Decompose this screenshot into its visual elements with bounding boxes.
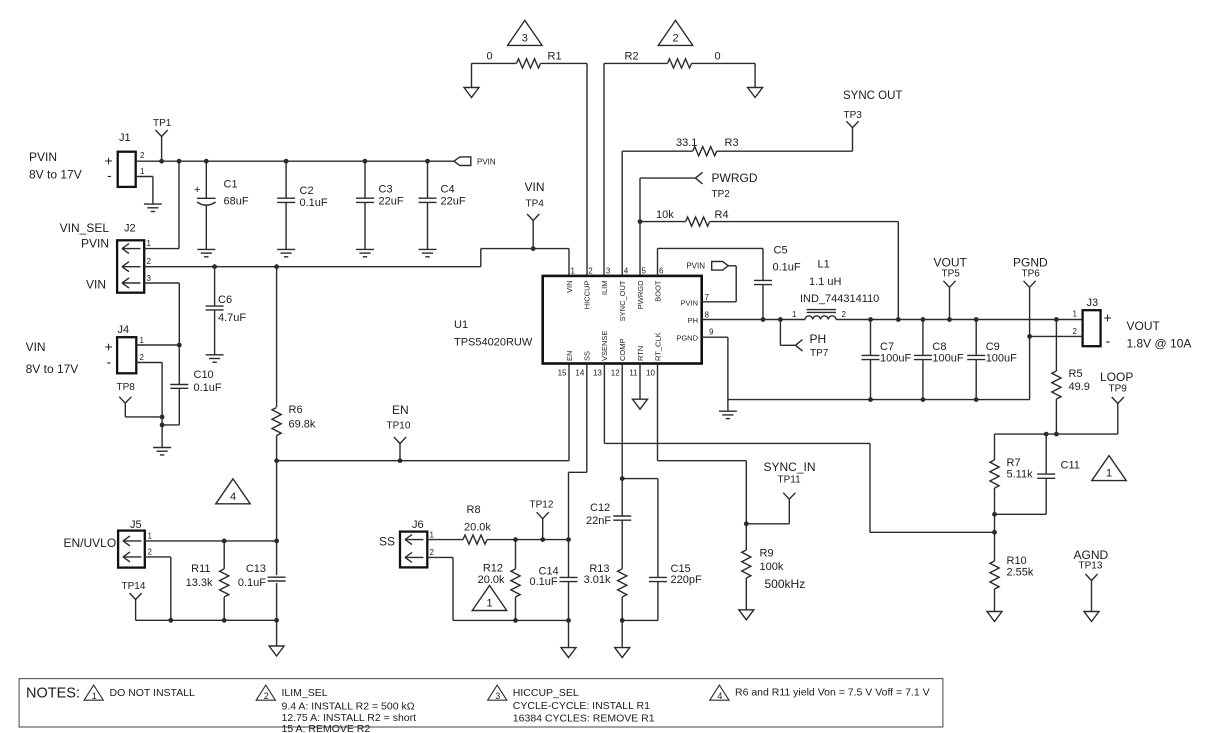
svg-text:1: 1 xyxy=(486,598,492,610)
svg-text:HICCUP_SEL: HICCUP_SEL xyxy=(513,687,579,699)
svg-text:TP12: TP12 xyxy=(530,500,554,511)
svg-text:0: 0 xyxy=(487,51,493,63)
svg-text:2: 2 xyxy=(147,257,152,266)
svg-text:C8: C8 xyxy=(932,341,946,353)
svg-text:PVIN: PVIN xyxy=(680,299,698,308)
svg-text:VIN: VIN xyxy=(86,278,106,292)
svg-text:1: 1 xyxy=(148,532,153,541)
svg-text:C12: C12 xyxy=(590,502,610,514)
svg-text:13: 13 xyxy=(593,369,602,378)
svg-text:2: 2 xyxy=(140,151,145,160)
svg-text:EN: EN xyxy=(565,351,574,361)
svg-text:R5: R5 xyxy=(1069,368,1083,380)
svg-text:14: 14 xyxy=(575,369,584,378)
svg-text:PVIN: PVIN xyxy=(29,150,57,164)
svg-text:100uF: 100uF xyxy=(932,353,963,365)
svg-text:PGND: PGND xyxy=(1013,256,1048,270)
svg-text:R8: R8 xyxy=(467,504,481,516)
svg-text:13.3k: 13.3k xyxy=(186,577,213,589)
svg-text:+: + xyxy=(194,184,200,196)
svg-text:TP5: TP5 xyxy=(942,269,961,280)
svg-text:0.1uF: 0.1uF xyxy=(300,197,328,209)
svg-text:TP3: TP3 xyxy=(844,110,863,121)
svg-text:ILIM: ILIM xyxy=(600,281,609,296)
svg-text:U1: U1 xyxy=(454,319,468,331)
svg-text:J3: J3 xyxy=(1087,297,1099,309)
svg-text:RTN: RTN xyxy=(636,346,645,361)
svg-text:NOTES:: NOTES: xyxy=(26,686,80,702)
svg-text:C2: C2 xyxy=(300,185,314,197)
svg-text:2: 2 xyxy=(140,353,145,362)
svg-text:0.1uF: 0.1uF xyxy=(194,382,222,394)
svg-text:R2: R2 xyxy=(625,51,639,63)
svg-text:-: - xyxy=(107,354,112,370)
svg-text:TP7: TP7 xyxy=(810,348,829,359)
svg-text:SS: SS xyxy=(583,351,592,361)
svg-text:1: 1 xyxy=(1106,468,1112,480)
svg-text:0.1uF: 0.1uF xyxy=(530,576,558,588)
svg-text:PH: PH xyxy=(688,316,698,325)
svg-text:C1: C1 xyxy=(224,179,238,191)
svg-text:TP9: TP9 xyxy=(1109,384,1128,395)
svg-text:TP4: TP4 xyxy=(526,199,545,210)
svg-text:R4: R4 xyxy=(715,209,729,221)
svg-text:TP14: TP14 xyxy=(122,581,146,592)
svg-text:J5: J5 xyxy=(130,519,142,531)
svg-text:68uF: 68uF xyxy=(224,196,249,208)
svg-text:100k: 100k xyxy=(760,561,784,573)
svg-text:PWRGD: PWRGD xyxy=(712,171,758,185)
svg-text:4.7uF: 4.7uF xyxy=(218,312,246,324)
svg-text:R10: R10 xyxy=(1007,555,1027,567)
svg-text:8: 8 xyxy=(705,310,710,319)
svg-text:COMP: COMP xyxy=(618,339,627,362)
svg-text:100uF: 100uF xyxy=(880,353,911,365)
svg-text:7: 7 xyxy=(705,293,710,302)
svg-text:LOOP: LOOP xyxy=(1100,370,1133,384)
svg-text:R11: R11 xyxy=(191,563,210,575)
svg-text:10k: 10k xyxy=(656,209,674,221)
svg-text:15 A: REMOVE R2: 15 A: REMOVE R2 xyxy=(282,723,371,733)
svg-text:10: 10 xyxy=(646,369,655,378)
svg-text:VIN_SEL: VIN_SEL xyxy=(60,221,110,235)
svg-text:2: 2 xyxy=(264,691,269,701)
svg-text:C9: C9 xyxy=(986,341,1000,353)
svg-text:49.9: 49.9 xyxy=(1069,381,1090,393)
svg-text:PGND: PGND xyxy=(676,333,698,342)
svg-text:69.8k: 69.8k xyxy=(289,419,316,431)
svg-text:R7: R7 xyxy=(1007,457,1021,469)
svg-text:-: - xyxy=(1106,333,1111,349)
svg-text:C11: C11 xyxy=(1061,460,1080,472)
svg-text:220pF: 220pF xyxy=(671,574,702,586)
svg-text:C4: C4 xyxy=(441,184,455,196)
svg-text:SS: SS xyxy=(379,535,395,549)
svg-text:C7: C7 xyxy=(880,341,894,353)
svg-text:PH: PH xyxy=(810,332,827,346)
svg-text:PVIN: PVIN xyxy=(81,237,109,251)
svg-text:DO NOT INSTALL: DO NOT INSTALL xyxy=(110,687,196,699)
svg-text:+: + xyxy=(1104,310,1112,326)
svg-text:8V to 17V: 8V to 17V xyxy=(26,362,79,376)
svg-text:R6 and R11 yield Von = 7.5 V V: R6 and R11 yield Von = 7.5 V Voff = 7.1 … xyxy=(735,687,930,699)
svg-text:C3: C3 xyxy=(379,184,393,196)
svg-text:6: 6 xyxy=(659,267,664,276)
svg-text:2.55k: 2.55k xyxy=(1007,567,1034,579)
svg-text:500kHz: 500kHz xyxy=(765,577,806,591)
svg-text:C13: C13 xyxy=(246,563,266,575)
svg-text:2: 2 xyxy=(842,310,847,319)
svg-text:+: + xyxy=(105,339,113,355)
svg-text:R12: R12 xyxy=(483,563,503,575)
svg-text:5: 5 xyxy=(642,267,647,276)
svg-text:20.0k: 20.0k xyxy=(464,522,491,534)
svg-text:22uF: 22uF xyxy=(379,196,404,208)
svg-text:VIN: VIN xyxy=(26,340,46,354)
svg-text:4: 4 xyxy=(230,491,236,503)
svg-text:0: 0 xyxy=(715,51,721,63)
svg-text:CYCLE-CYCLE: INSTALL R1: CYCLE-CYCLE: INSTALL R1 xyxy=(513,700,650,712)
svg-text:1: 1 xyxy=(92,691,97,701)
svg-text:3: 3 xyxy=(495,691,500,701)
svg-text:L1: L1 xyxy=(818,259,830,271)
svg-text:PVIN: PVIN xyxy=(686,262,705,271)
svg-text:4: 4 xyxy=(624,267,629,276)
svg-text:VIN: VIN xyxy=(565,281,574,294)
svg-text:9: 9 xyxy=(709,328,714,337)
svg-text:C5: C5 xyxy=(774,245,788,257)
svg-text:SYNC_OUT: SYNC_OUT xyxy=(618,280,627,321)
svg-text:1.8V @ 10A: 1.8V @ 10A xyxy=(1127,337,1192,351)
svg-text:22uF: 22uF xyxy=(441,196,466,208)
svg-text:TP2: TP2 xyxy=(712,189,731,200)
svg-text:16384 CYCLES: REMOVE R1: 16384 CYCLES: REMOVE R1 xyxy=(513,713,655,725)
svg-text:1.1 uH: 1.1 uH xyxy=(809,276,841,288)
svg-text:R3: R3 xyxy=(725,137,739,149)
svg-text:3: 3 xyxy=(147,274,152,283)
svg-text:J6: J6 xyxy=(412,519,424,531)
svg-text:3.01k: 3.01k xyxy=(584,574,611,586)
svg-text:4: 4 xyxy=(717,691,722,701)
svg-text:J1: J1 xyxy=(119,132,131,144)
svg-text:1: 1 xyxy=(430,531,435,540)
svg-text:SYNC OUT: SYNC OUT xyxy=(843,90,902,102)
svg-text:RT_CLK: RT_CLK xyxy=(653,332,662,361)
svg-text:J4: J4 xyxy=(118,324,130,336)
svg-text:R1: R1 xyxy=(548,51,562,63)
svg-text:VSENSE: VSENSE xyxy=(600,331,609,361)
svg-text:ILIM_SEL: ILIM_SEL xyxy=(282,687,328,699)
svg-text:1: 1 xyxy=(571,267,576,276)
svg-text:VIN: VIN xyxy=(525,180,545,194)
svg-text:-: - xyxy=(107,167,112,183)
svg-text:BOOT: BOOT xyxy=(653,280,662,302)
svg-text:33.1: 33.1 xyxy=(676,137,697,149)
svg-text:20.0k: 20.0k xyxy=(478,574,505,586)
svg-text:TP1: TP1 xyxy=(153,118,172,129)
svg-text:0.1uF: 0.1uF xyxy=(238,577,266,589)
svg-text:2: 2 xyxy=(430,548,435,557)
svg-text:15: 15 xyxy=(558,369,567,378)
svg-text:TP13: TP13 xyxy=(1079,561,1103,572)
svg-text:C10: C10 xyxy=(194,369,214,381)
svg-text:8V to 17V: 8V to 17V xyxy=(29,168,82,182)
svg-text:TP6: TP6 xyxy=(1022,269,1041,280)
svg-text:1: 1 xyxy=(792,310,797,319)
svg-text:11: 11 xyxy=(629,369,638,378)
svg-text:R9: R9 xyxy=(760,548,774,560)
svg-text:12: 12 xyxy=(611,369,620,378)
svg-text:22nF: 22nF xyxy=(586,515,611,527)
svg-text:2: 2 xyxy=(588,267,593,276)
svg-text:TP10: TP10 xyxy=(387,421,411,432)
svg-text:9.4 A: INSTALL R2 = 500 kΩ: 9.4 A: INSTALL R2 = 500 kΩ xyxy=(282,701,415,713)
svg-text:TP11: TP11 xyxy=(778,475,802,486)
svg-text:1: 1 xyxy=(140,167,145,176)
svg-text:R6: R6 xyxy=(289,404,303,416)
svg-text:PWRGD: PWRGD xyxy=(636,280,645,309)
svg-text:3: 3 xyxy=(606,267,611,276)
svg-text:100uF: 100uF xyxy=(986,353,1017,365)
svg-text:SYNC_IN: SYNC_IN xyxy=(764,460,816,474)
svg-text:C6: C6 xyxy=(218,294,232,306)
svg-text:HICCUP: HICCUP xyxy=(583,281,592,310)
svg-text:EN/UVLO: EN/UVLO xyxy=(64,536,117,550)
svg-text:1: 1 xyxy=(140,336,145,345)
svg-text:2: 2 xyxy=(148,548,153,557)
svg-text:VOUT: VOUT xyxy=(1127,319,1161,333)
svg-text:2: 2 xyxy=(672,32,678,44)
svg-text:TP8: TP8 xyxy=(117,382,136,393)
svg-text:PVIN: PVIN xyxy=(477,158,496,167)
svg-text:2: 2 xyxy=(1073,327,1078,336)
svg-text:EN: EN xyxy=(392,403,409,417)
svg-text:5.11k: 5.11k xyxy=(1007,469,1034,481)
svg-text:1: 1 xyxy=(1073,310,1078,319)
svg-text:J2: J2 xyxy=(124,223,136,235)
svg-text:VOUT: VOUT xyxy=(934,256,968,270)
svg-text:IND_744314110: IND_744314110 xyxy=(800,293,879,305)
svg-text:3: 3 xyxy=(522,32,528,44)
svg-text:0.1uF: 0.1uF xyxy=(773,262,801,274)
svg-text:TPS54020RUW: TPS54020RUW xyxy=(454,337,533,349)
svg-text:1: 1 xyxy=(147,239,152,248)
